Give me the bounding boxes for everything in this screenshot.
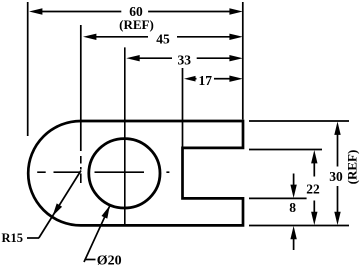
svg-text:(REF): (REF) <box>345 150 360 185</box>
extension line notch top right (22) <box>249 149 322 151</box>
hole circle Ø20 <box>89 139 160 208</box>
svg-text:Ø20: Ø20 <box>97 254 122 269</box>
svg-text:22: 22 <box>306 181 320 196</box>
svg-text:45: 45 <box>156 31 170 46</box>
dimension 30 <box>334 122 340 226</box>
leader R15 <box>27 171 81 239</box>
dimension 22 <box>311 150 317 225</box>
dimension 45 <box>83 34 243 40</box>
svg-text:R15: R15 <box>2 231 24 245</box>
dimension 8 <box>290 174 296 251</box>
extension line bottom right <box>249 225 349 227</box>
part outline <box>28 121 243 225</box>
extension line top right (30 REF) <box>249 120 349 122</box>
leader Ø20 <box>84 206 110 263</box>
extension line 60 left <box>27 2 29 136</box>
dimension 60 <box>29 8 243 14</box>
svg-text:30: 30 <box>329 169 343 184</box>
dimension 17 <box>184 76 243 82</box>
horizontal centerline <box>37 171 169 173</box>
svg-text:8: 8 <box>289 200 296 215</box>
extension line 17 <box>182 68 184 148</box>
extension line notch bottom right (8) <box>249 197 307 199</box>
svg-text:17: 17 <box>199 73 213 88</box>
extension line 33 / circle centerline vertical <box>124 47 126 225</box>
svg-text:(REF): (REF) <box>119 17 154 32</box>
dimension 33 <box>126 55 243 61</box>
extension line right vertical <box>242 2 244 120</box>
svg-text:33: 33 <box>177 53 191 68</box>
extension line 45 / arc centerline vertical <box>80 25 82 183</box>
